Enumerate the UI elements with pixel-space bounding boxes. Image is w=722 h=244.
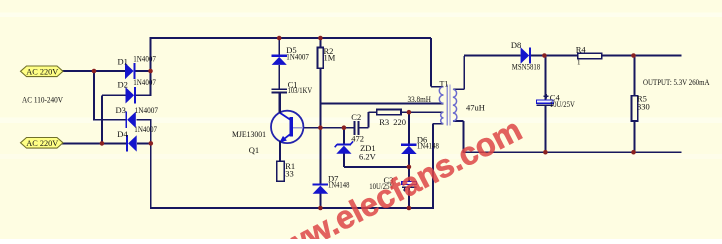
svg-text:220: 220 (393, 117, 406, 127)
svg-text:D3: D3 (116, 105, 126, 115)
svg-text:6.2V: 6.2V (359, 152, 377, 162)
svg-text:AC 220V: AC 220V (26, 139, 58, 148)
svg-text:AC 110-240V: AC 110-240V (22, 96, 63, 105)
svg-text:10U/25V: 10U/25V (550, 99, 576, 109)
svg-text:D4: D4 (117, 129, 128, 139)
svg-text:MJE13001: MJE13001 (232, 129, 266, 139)
svg-text:Q1: Q1 (249, 145, 259, 155)
svg-text:OUTPUT: 5.3V 260mA: OUTPUT: 5.3V 260mA (643, 78, 710, 87)
svg-text:1M: 1M (324, 52, 336, 62)
svg-text:33: 33 (285, 169, 294, 179)
svg-text:1N4007: 1N4007 (135, 105, 158, 115)
svg-text:T1: T1 (440, 80, 449, 89)
svg-text:1N4007: 1N4007 (133, 77, 156, 87)
svg-text:D8: D8 (511, 40, 521, 50)
svg-text:R3: R3 (379, 117, 389, 127)
svg-text:C2: C2 (351, 112, 361, 122)
svg-text:D1: D1 (118, 56, 128, 66)
svg-text:33.8mH: 33.8mH (408, 94, 432, 104)
svg-text:1N4007: 1N4007 (133, 53, 156, 63)
svg-text:D2: D2 (118, 79, 128, 89)
svg-text:1N4007: 1N4007 (134, 124, 157, 134)
svg-text:1N4148: 1N4148 (328, 180, 349, 190)
svg-text:MSN5818: MSN5818 (512, 62, 540, 72)
svg-text:103/1KV: 103/1KV (288, 85, 313, 95)
svg-text:AC 220V: AC 220V (26, 67, 58, 76)
svg-text:330: 330 (637, 102, 650, 112)
svg-text:1: 1 (577, 58, 581, 66)
svg-text:R4: R4 (576, 44, 587, 54)
svg-text:47uH: 47uH (466, 103, 485, 113)
svg-text:1N4007: 1N4007 (286, 51, 309, 61)
